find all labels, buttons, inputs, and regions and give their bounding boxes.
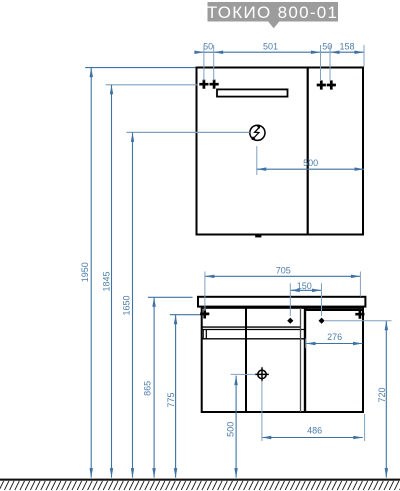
section divider thin (300, 308, 302, 412)
power outlet symbol U1 (250, 125, 265, 140)
dimension 865 (142, 297, 192, 477)
mirror bottom center tick (255, 235, 261, 238)
mirror cabinet body (197, 68, 364, 235)
svg-text:150: 150 (297, 281, 312, 291)
lower cabinet countertop (198, 297, 365, 307)
svg-text:1950: 1950 (80, 262, 90, 282)
svg-text:865: 865 (142, 381, 152, 396)
band left inner verticals (202, 330, 204, 339)
mirror lamp bar (217, 89, 288, 96)
dimension 276 (306, 332, 363, 348)
svg-text:ТОКИО 800-01: ТОКИО 800-01 (207, 3, 338, 22)
mounting diamond left (287, 318, 293, 324)
svg-text:720: 720 (377, 387, 387, 402)
svg-text:158: 158 (339, 42, 354, 52)
dimension 720 (325, 321, 392, 478)
drawer band bottom (202, 338, 304, 340)
mirror divider (307, 68, 309, 235)
dimension 1845 (101, 85, 198, 478)
ground hatch (0, 481, 400, 490)
title box (208, 2, 339, 22)
mounting diamond right (319, 318, 325, 324)
svg-text:1845: 1845 (101, 271, 111, 291)
ground line (0, 479, 400, 481)
svg-text:775: 775 (166, 392, 176, 407)
dimension 150 (290, 281, 321, 316)
dimension 158 (330, 42, 364, 55)
svg-text:50: 50 (322, 42, 332, 52)
section divider thick (304, 308, 306, 412)
svg-text:501: 501 (263, 42, 278, 52)
svg-text:500: 500 (226, 422, 236, 437)
dimension 775 (166, 315, 201, 478)
svg-text:500: 500 (303, 158, 318, 168)
drawer band top (202, 329, 304, 331)
dimension 1950 (80, 68, 196, 478)
lower cabinet body (202, 308, 363, 412)
mirror 500 dimension (256, 146, 258, 175)
dimension 500 lower (226, 374, 256, 477)
svg-text:486: 486 (307, 426, 322, 436)
right door top edge (305, 309, 363, 311)
drain hole (255, 367, 269, 381)
mirror mounting plus marks (199, 80, 208, 89)
dimension 501 (214, 42, 321, 55)
title pointer triangle (268, 21, 279, 28)
dimension 50 right (321, 42, 333, 53)
lower cabinet plus marks (200, 309, 209, 318)
svg-text:50: 50 (203, 42, 213, 52)
svg-text:705: 705 (276, 266, 291, 276)
svg-text:276: 276 (327, 332, 342, 342)
dimension 1650 (122, 132, 250, 477)
dimension 486 (262, 381, 365, 441)
top rail bottom line (202, 326, 301, 328)
door divider (245, 308, 247, 412)
dimension 50 left (194, 42, 213, 55)
dimension 705 (205, 266, 361, 312)
svg-text:1650: 1650 (122, 295, 132, 315)
extension lines top (204, 45, 364, 81)
